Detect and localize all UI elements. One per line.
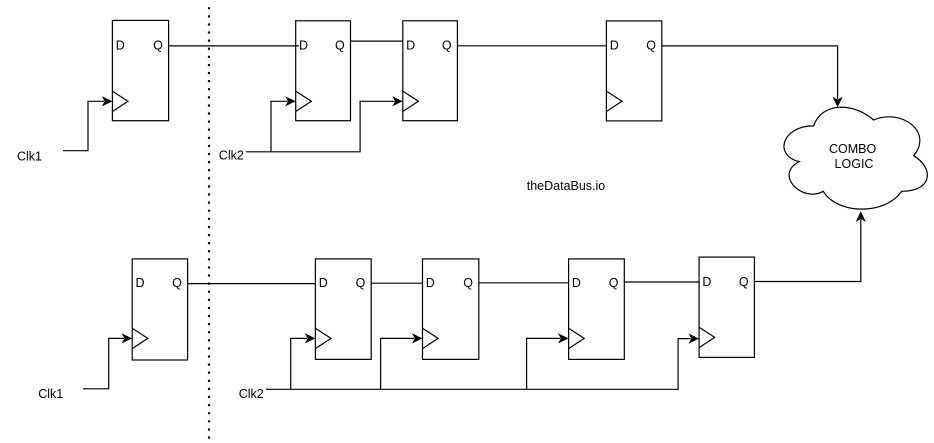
arrowhead Clk2 into U9	[689, 334, 700, 344]
arrowhead Clk2 into U3	[392, 96, 403, 106]
arrowhead Clk2 into U2	[285, 96, 296, 106]
flip-flop U8	[569, 259, 625, 360]
svg-text:Q: Q	[356, 276, 366, 290]
svg-text:Q: Q	[335, 39, 345, 53]
svg-text:Q: Q	[172, 276, 182, 290]
svg-text:D: D	[116, 39, 125, 53]
wire Clk1 to U5 clock	[83, 338, 124, 388]
combo logic cloud	[784, 107, 927, 209]
flip-flop U7	[423, 259, 479, 360]
svg-text:Clk1: Clk1	[38, 387, 63, 401]
wire U8.Q to U9.D	[624, 281, 699, 283]
svg-text:COMBO: COMBO	[829, 142, 877, 156]
flip-flop U1	[112, 20, 168, 120]
svg-text:LOGIC: LOGIC	[835, 157, 874, 171]
arrowhead Clk2 into U8	[558, 333, 569, 343]
wire Clk2 branch to U7 clock	[381, 338, 415, 389]
wire U1.Q to U2.D	[169, 45, 299, 47]
svg-text:D: D	[572, 276, 581, 290]
wire Clk2 trunk to U3 clock	[246, 101, 395, 152]
wire Clk2 branch to U6 clock	[291, 338, 307, 389]
svg-text:D: D	[136, 276, 145, 290]
svg-text:Q: Q	[153, 39, 163, 53]
svg-text:Clk2: Clk2	[219, 149, 244, 163]
svg-text:D: D	[702, 275, 711, 289]
arrowhead Clk1 into U5	[122, 333, 133, 343]
svg-text:D: D	[406, 39, 415, 53]
svg-text:D: D	[610, 39, 619, 53]
svg-text:Q: Q	[463, 276, 473, 290]
svg-text:Q: Q	[442, 39, 452, 53]
arrowhead into cloud top	[833, 97, 843, 108]
wire Clk2 branch to U8 clock	[527, 338, 561, 389]
flip-flop U9	[699, 257, 754, 357]
flip-flop U3	[403, 21, 458, 121]
wire Clk1 to U1 clock	[63, 101, 104, 150]
svg-text:Clk2: Clk2	[239, 387, 264, 401]
flip-flop U5	[132, 259, 187, 360]
wire U7.Q to U8.D	[479, 282, 569, 284]
arrowhead into cloud bottom	[856, 211, 866, 222]
arrowhead Clk2 into U7	[412, 333, 423, 343]
flip-flop U6	[315, 259, 371, 360]
svg-text:D: D	[426, 276, 435, 290]
svg-text:Clk1: Clk1	[17, 149, 42, 163]
clock domain boundary (dotted line)	[208, 8, 210, 443]
wire U9.Q to cloud (combo logic)	[754, 220, 860, 282]
arrowhead Clk2 into U6	[305, 333, 316, 343]
svg-text:Q: Q	[609, 276, 619, 290]
wire U5.Q to U6.D	[188, 283, 316, 285]
wire U2.Q to U3.D	[351, 40, 404, 42]
wire U6.Q to U7.D	[371, 282, 422, 284]
svg-text:Q: Q	[739, 275, 749, 289]
wire U4.Q to cloud (combo logic)	[662, 46, 838, 99]
arrowhead Clk1 into U1	[102, 96, 113, 106]
svg-text:Q: Q	[646, 39, 656, 53]
wire U3.Q to U4.D	[457, 45, 606, 47]
svg-text:theDataBus.io: theDataBus.io	[527, 179, 606, 193]
svg-text:D: D	[319, 276, 328, 290]
flip-flop U4	[606, 21, 661, 121]
wire Clk2 branch to U2 clock	[271, 101, 287, 152]
svg-text:D: D	[299, 39, 308, 53]
wire Clk2 trunk to U9 clock	[266, 339, 691, 390]
flip-flop U2	[296, 21, 351, 121]
